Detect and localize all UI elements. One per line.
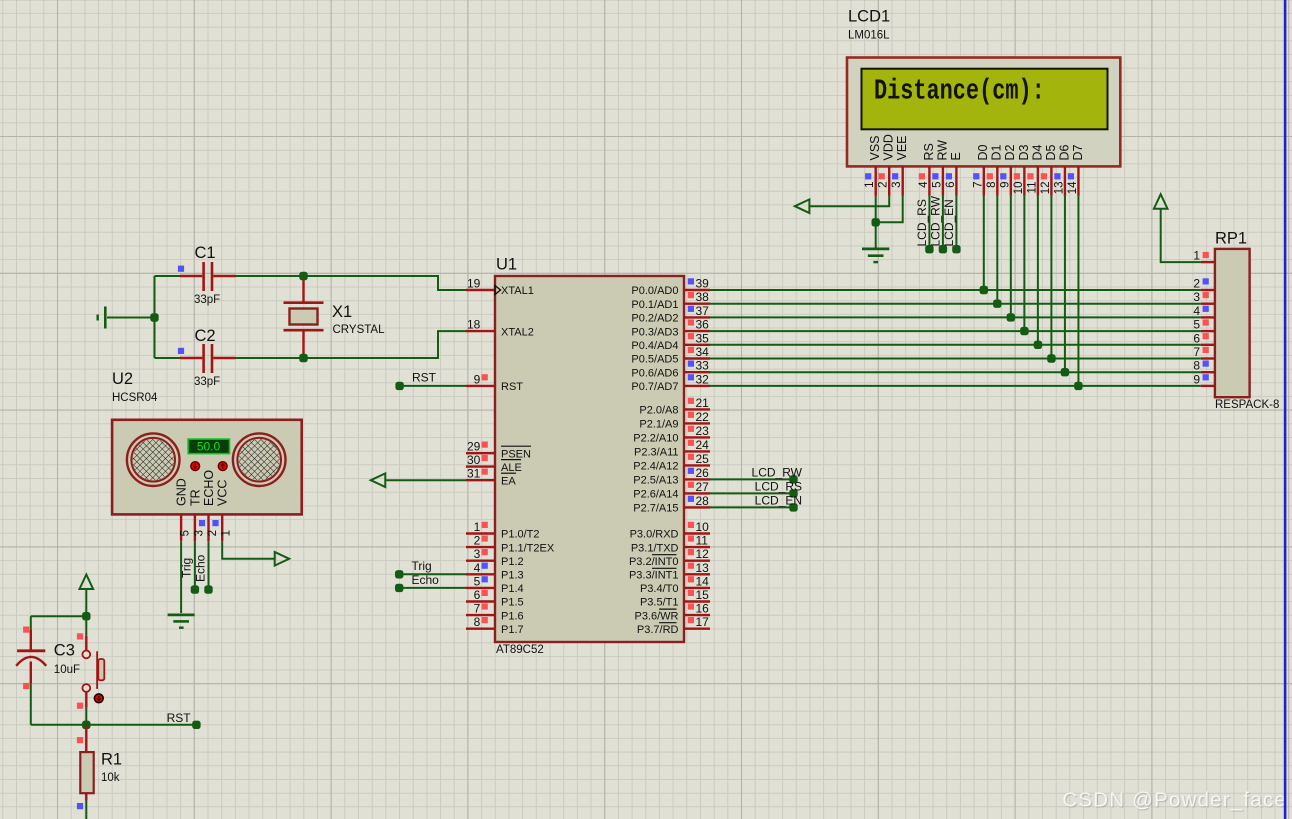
svg-text:P3.7/RD: P3.7/RD bbox=[637, 624, 679, 636]
svg-text:5: 5 bbox=[1193, 318, 1200, 332]
svg-text:12: 12 bbox=[1040, 182, 1052, 195]
svg-text:P3.4/T0: P3.4/T0 bbox=[640, 583, 679, 595]
svg-text:GND: GND bbox=[175, 478, 189, 506]
svg-text:3: 3 bbox=[1193, 290, 1200, 304]
svg-text:VCC: VCC bbox=[216, 480, 230, 506]
svg-text:LM016L: LM016L bbox=[848, 30, 890, 42]
svg-text:P2.4/A12: P2.4/A12 bbox=[633, 461, 678, 473]
svg-text:P3.1/TXD: P3.1/TXD bbox=[631, 542, 679, 554]
svg-text:P1.2: P1.2 bbox=[501, 556, 524, 568]
svg-text:39: 39 bbox=[696, 277, 710, 291]
svg-text:XTAL1: XTAL1 bbox=[501, 285, 534, 297]
svg-text:P3.0/RXD: P3.0/RXD bbox=[630, 529, 679, 541]
svg-text:32: 32 bbox=[696, 372, 710, 386]
svg-text:RST: RST bbox=[501, 381, 523, 393]
svg-text:10: 10 bbox=[1013, 182, 1025, 195]
svg-text:D7: D7 bbox=[1071, 144, 1085, 160]
svg-text:U1: U1 bbox=[496, 256, 517, 274]
svg-text:13: 13 bbox=[1053, 182, 1065, 195]
svg-text:30: 30 bbox=[467, 453, 481, 467]
svg-text:5: 5 bbox=[931, 182, 943, 188]
svg-text:P1.1/T2EX: P1.1/T2EX bbox=[501, 542, 555, 554]
svg-text:9: 9 bbox=[999, 182, 1011, 188]
svg-text:5: 5 bbox=[180, 530, 192, 536]
svg-text:8: 8 bbox=[986, 182, 998, 188]
svg-text:LCD1: LCD1 bbox=[848, 8, 890, 26]
svg-text:10uF: 10uF bbox=[54, 664, 80, 676]
svg-text:28: 28 bbox=[696, 494, 710, 508]
svg-text:1: 1 bbox=[864, 182, 876, 188]
svg-text:U2: U2 bbox=[112, 370, 133, 388]
svg-text:6: 6 bbox=[945, 182, 957, 188]
svg-text:E: E bbox=[949, 152, 963, 160]
svg-text:C3: C3 bbox=[54, 642, 75, 660]
svg-text:D5: D5 bbox=[1044, 144, 1058, 160]
svg-text:LCD_EN: LCD_EN bbox=[942, 199, 956, 246]
svg-text:6: 6 bbox=[474, 588, 481, 602]
svg-text:RW: RW bbox=[935, 140, 949, 161]
svg-text:RESPACK-8: RESPACK-8 bbox=[1215, 399, 1279, 411]
svg-text:27: 27 bbox=[696, 480, 710, 494]
svg-text:Echo: Echo bbox=[194, 554, 208, 582]
svg-text:29: 29 bbox=[467, 440, 481, 454]
svg-text:P0.6/AD6: P0.6/AD6 bbox=[631, 367, 678, 379]
svg-text:C2: C2 bbox=[195, 327, 216, 345]
svg-text:26: 26 bbox=[696, 466, 710, 480]
svg-text:2: 2 bbox=[474, 534, 481, 548]
svg-text:D4: D4 bbox=[1030, 144, 1044, 160]
svg-text:4: 4 bbox=[1193, 304, 1200, 318]
svg-text:19: 19 bbox=[467, 277, 481, 291]
svg-text:7: 7 bbox=[972, 182, 984, 188]
svg-text:P3.2/INT0: P3.2/INT0 bbox=[629, 556, 679, 568]
svg-text:4: 4 bbox=[918, 181, 930, 188]
svg-text:P2.5/A13: P2.5/A13 bbox=[633, 475, 678, 487]
svg-text:P0.7/AD7: P0.7/AD7 bbox=[631, 381, 678, 393]
svg-text:RST: RST bbox=[412, 371, 437, 385]
svg-text:P1.4: P1.4 bbox=[501, 583, 524, 595]
svg-text:4: 4 bbox=[474, 561, 481, 575]
svg-text:CRYSTAL: CRYSTAL bbox=[333, 324, 386, 336]
svg-text:24: 24 bbox=[696, 438, 710, 452]
svg-text:HCSR04: HCSR04 bbox=[112, 392, 158, 404]
svg-text:P2.7/A15: P2.7/A15 bbox=[633, 503, 678, 515]
svg-text:Echo: Echo bbox=[412, 573, 440, 587]
svg-text:35: 35 bbox=[696, 331, 710, 345]
svg-text:10k: 10k bbox=[101, 772, 120, 784]
svg-text:CSDN @Powder_face: CSDN @Powder_face bbox=[1062, 789, 1287, 812]
svg-text:D2: D2 bbox=[1003, 144, 1017, 160]
svg-text:RST: RST bbox=[167, 711, 192, 725]
svg-text:5: 5 bbox=[474, 574, 481, 588]
svg-text:P3.5/T1: P3.5/T1 bbox=[640, 597, 679, 609]
svg-text:P1.5: P1.5 bbox=[501, 597, 524, 609]
svg-text:9: 9 bbox=[474, 372, 481, 386]
svg-text:21: 21 bbox=[696, 396, 710, 410]
svg-text:XTAL2: XTAL2 bbox=[501, 326, 534, 338]
svg-text:1: 1 bbox=[1193, 249, 1200, 263]
svg-text:1: 1 bbox=[474, 520, 481, 534]
svg-text:33: 33 bbox=[696, 359, 710, 373]
svg-text:9: 9 bbox=[1193, 372, 1200, 386]
svg-text:14: 14 bbox=[696, 574, 710, 588]
svg-text:P0.4/AD4: P0.4/AD4 bbox=[631, 340, 678, 352]
svg-text:P2.3/A11: P2.3/A11 bbox=[634, 447, 678, 459]
svg-text:33pF: 33pF bbox=[194, 294, 220, 306]
svg-text:P0.3/AD3: P0.3/AD3 bbox=[631, 326, 678, 338]
svg-text:P1.6: P1.6 bbox=[501, 610, 524, 622]
svg-text:P3.6/WR: P3.6/WR bbox=[634, 610, 678, 622]
svg-text:ECHO: ECHO bbox=[202, 470, 216, 506]
svg-text:P0.1/AD1: P0.1/AD1 bbox=[631, 299, 678, 311]
svg-text:R1: R1 bbox=[101, 751, 122, 769]
svg-text:2: 2 bbox=[878, 182, 890, 188]
svg-text:P0.2/AD2: P0.2/AD2 bbox=[631, 313, 678, 325]
svg-text:P2.0/A8: P2.0/A8 bbox=[639, 405, 678, 417]
svg-text:EA: EA bbox=[501, 475, 516, 487]
svg-text:34: 34 bbox=[696, 345, 710, 359]
svg-text:33pF: 33pF bbox=[194, 376, 220, 388]
svg-text:X1: X1 bbox=[332, 303, 352, 321]
svg-text:14: 14 bbox=[1067, 181, 1079, 194]
svg-text:LCD_RS: LCD_RS bbox=[755, 479, 802, 493]
svg-text:D1: D1 bbox=[990, 144, 1004, 160]
svg-text:22: 22 bbox=[696, 410, 710, 424]
svg-text:D0: D0 bbox=[976, 144, 990, 160]
svg-text:1: 1 bbox=[221, 530, 233, 536]
svg-text:VSS: VSS bbox=[868, 135, 882, 160]
svg-text:VEE: VEE bbox=[895, 135, 909, 160]
svg-text:7: 7 bbox=[474, 602, 481, 616]
svg-text:RP1: RP1 bbox=[1215, 230, 1247, 248]
svg-text:16: 16 bbox=[696, 602, 710, 616]
svg-text:15: 15 bbox=[696, 588, 710, 602]
svg-text:13: 13 bbox=[696, 561, 710, 575]
svg-text:11: 11 bbox=[1026, 182, 1038, 194]
svg-text:Distance(cm):: Distance(cm): bbox=[874, 75, 1045, 108]
svg-text:P0.5/AD5: P0.5/AD5 bbox=[631, 354, 678, 366]
svg-text:C1: C1 bbox=[195, 244, 216, 262]
svg-text:7: 7 bbox=[1193, 345, 1200, 359]
svg-text:P1.7: P1.7 bbox=[501, 624, 524, 636]
svg-text:11: 11 bbox=[696, 534, 709, 548]
svg-text:17: 17 bbox=[696, 615, 710, 629]
svg-text:12: 12 bbox=[696, 547, 710, 561]
svg-text:10: 10 bbox=[696, 520, 710, 534]
svg-text:2: 2 bbox=[207, 530, 219, 536]
svg-text:P0.0/AD0: P0.0/AD0 bbox=[631, 285, 678, 297]
svg-text:6: 6 bbox=[1193, 331, 1200, 345]
svg-text:TR: TR bbox=[188, 489, 202, 506]
svg-text:8: 8 bbox=[474, 615, 481, 629]
svg-text:31: 31 bbox=[467, 467, 481, 481]
svg-text:P2.2/A10: P2.2/A10 bbox=[633, 433, 678, 445]
svg-text:P2.6/A14: P2.6/A14 bbox=[633, 489, 678, 501]
svg-text:P2.1/A9: P2.1/A9 bbox=[639, 419, 678, 431]
svg-text:2: 2 bbox=[1193, 277, 1200, 291]
svg-text:D3: D3 bbox=[1017, 144, 1031, 160]
svg-text:3: 3 bbox=[193, 530, 205, 536]
svg-text:PSEN: PSEN bbox=[501, 448, 531, 460]
svg-text:LCD_RW: LCD_RW bbox=[929, 195, 943, 246]
svg-text:P1.3: P1.3 bbox=[501, 570, 524, 582]
svg-text:38: 38 bbox=[696, 290, 710, 304]
svg-text:LCD_EN: LCD_EN bbox=[755, 493, 802, 507]
svg-text:P1.0/T2: P1.0/T2 bbox=[501, 529, 540, 541]
svg-text:18: 18 bbox=[467, 318, 481, 332]
svg-text:D6: D6 bbox=[1057, 144, 1071, 160]
svg-text:RS: RS bbox=[922, 143, 936, 160]
svg-text:3: 3 bbox=[891, 182, 903, 188]
svg-text:Trig: Trig bbox=[180, 558, 194, 578]
svg-text:P3.3/INT1: P3.3/INT1 bbox=[629, 570, 679, 582]
svg-text:AT89C52: AT89C52 bbox=[496, 644, 544, 656]
svg-text:3: 3 bbox=[474, 547, 481, 561]
svg-text:23: 23 bbox=[696, 424, 710, 438]
svg-text:ALE: ALE bbox=[501, 462, 522, 474]
svg-text:8: 8 bbox=[1193, 359, 1200, 373]
svg-text:LCD_RW: LCD_RW bbox=[752, 465, 803, 479]
svg-text:37: 37 bbox=[696, 304, 710, 318]
svg-text:50.0: 50.0 bbox=[197, 440, 221, 454]
svg-text:Trig: Trig bbox=[412, 559, 432, 573]
svg-text:LCD_RS: LCD_RS bbox=[915, 199, 929, 246]
svg-text:VDD: VDD bbox=[882, 134, 896, 160]
svg-text:36: 36 bbox=[696, 318, 710, 332]
svg-text:25: 25 bbox=[696, 452, 710, 466]
